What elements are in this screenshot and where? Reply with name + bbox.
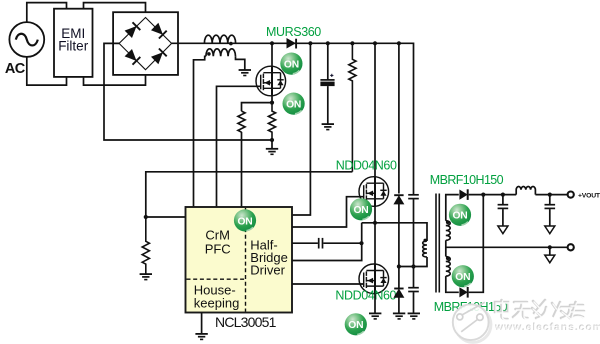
transformer T1 core (436, 194, 439, 293)
capacitor C1 bulk (320, 43, 334, 123)
capacitor C5 output (498, 195, 509, 226)
node dot rail boost drain (270, 41, 274, 45)
wire switch node to primary (362, 223, 427, 241)
bridge diode top-right (152, 24, 167, 39)
wire R2 to controller top (241, 132, 243, 207)
resistor R1 feedback upper (349, 43, 356, 172)
ON badge 6 (449, 204, 471, 226)
wire return ground stub (549, 247, 551, 255)
node dot return line (270, 138, 274, 142)
wire VS return to switch node (292, 223, 362, 261)
ON badge 1 (280, 53, 302, 75)
svg-text:MBRF10H150: MBRF10H150 (430, 173, 504, 187)
svg-text:Filter: Filter (58, 38, 89, 53)
node dot rail HV line (308, 41, 312, 45)
wire secondary center tap lead (445, 240, 447, 256)
svg-text:AC: AC (5, 61, 26, 77)
node dot switch node (373, 221, 377, 225)
capacitor C6 output (545, 195, 556, 226)
wire primary return (399, 257, 427, 267)
node dot cap midpoint (411, 264, 415, 268)
svg-text:Driver: Driver (250, 263, 285, 278)
node dot bootstrap to VS (359, 241, 363, 245)
watermark chinese text (495, 300, 584, 319)
wire AC top to EMI filter (27, 3, 67, 23)
bridge rectifier BR1 (113, 12, 178, 75)
wire half-bridge midpoint vertical (374, 206, 376, 264)
terminal +VOUT (568, 192, 574, 198)
wire ZCD left lead down to controller (194, 56, 206, 207)
svg-text:+VOUT: +VOUT (578, 192, 600, 199)
capacitor C4 half-bridge lower (408, 288, 419, 313)
transistor Q3 low-side MOSFET (359, 264, 389, 294)
resistor R2 current sense (238, 111, 245, 132)
wire bridge left vertex to return line (104, 43, 272, 140)
bridge diode bottom-left (126, 50, 141, 65)
transistor Q2 high-side MOSFET (359, 177, 389, 207)
capacitor C2 bootstrap (292, 238, 362, 249)
wire HS gate drive (292, 197, 364, 227)
phasing dot L1 (229, 42, 233, 46)
svg-text:MURS360: MURS360 (266, 25, 321, 39)
transformer T1 secondary top winding (446, 221, 450, 241)
node dot rail bulk cap (326, 41, 330, 45)
ON badge 5 (345, 313, 367, 335)
node dot output cap 1 (501, 193, 505, 197)
ground FB divider (140, 274, 152, 280)
EMI Filter box (54, 9, 93, 77)
diode D4 output top MBRF10H150 (460, 189, 468, 200)
wire Q1 gate to controller (217, 86, 261, 207)
wire output positive rail (469, 194, 517, 196)
wire controller ground stem (201, 313, 203, 334)
ground clamp diodes (393, 313, 405, 319)
ground C5 triangle (498, 226, 508, 234)
terminal output return (568, 244, 574, 250)
resistor R3 shunt (268, 103, 275, 140)
ground C6 triangle (545, 226, 555, 234)
svg-text:NDD04N60: NDD04N60 (336, 159, 397, 173)
transistor Q1 boost MOSFET (256, 66, 286, 96)
diode D3 clamp lower (394, 289, 403, 313)
AC source (9, 22, 44, 57)
node dot Q1 source (270, 101, 274, 105)
node dot output cap 2 (548, 193, 552, 197)
svg-text:www.elecfans.com: www.elecfans.com (495, 322, 600, 334)
node dot diode junction (481, 193, 485, 197)
ON badge 4 (350, 198, 372, 220)
svg-text:PFC: PFC (205, 241, 231, 256)
wire secondary bottom lead (446, 276, 459, 292)
wire LS source to ground (374, 294, 376, 313)
op-amp U1 NCL30051 controller box (186, 207, 293, 313)
wire clamp diode string (398, 43, 400, 193)
wire boost FET drain-source vertical (271, 43, 273, 102)
diode D2 clamp upper (394, 195, 403, 288)
ground boost source (266, 149, 278, 155)
wire HS drain from rail (374, 43, 376, 176)
wire EMI filter to bridge bottom (84, 70, 146, 85)
ON badge 3 controller (234, 209, 256, 231)
wire output return rail (446, 246, 568, 248)
ground bulk cap (322, 124, 334, 130)
wire EMI filter to bridge top (84, 3, 146, 18)
svg-text:keeping: keeping (194, 295, 240, 310)
wire feedback line to FB node (146, 172, 353, 217)
node dot rail HS drain (373, 41, 377, 45)
capacitor C3 half-bridge upper (408, 195, 419, 288)
transformer T1 secondary bottom winding (446, 257, 450, 277)
node dot clamp midpoint (397, 264, 401, 268)
watermark logo circle (453, 302, 491, 342)
svg-text:NCL30051: NCL30051 (215, 314, 277, 330)
bridge diode top-left (126, 22, 141, 37)
diode MURS360 (287, 39, 296, 49)
diode D5 output bottom (460, 287, 468, 298)
ground return triangle (545, 255, 555, 263)
node dot FB (144, 215, 148, 219)
wire D5 cathode up to positive rail (469, 195, 484, 293)
wire source node to CS resistor (242, 103, 273, 112)
wire ZCD right lead to ground (236, 56, 245, 69)
ground controller (195, 334, 207, 340)
resistor R4 feedback lower (142, 217, 149, 274)
transformer T1 primary winding (423, 239, 427, 257)
node dot rail FB resistor (350, 41, 354, 45)
wire bridge right to main rail and rail to snubber bend (172, 43, 414, 194)
wire LS gate drive (292, 283, 364, 285)
wire AC bottom to EMI filter (27, 57, 67, 86)
ON badge 2 (283, 93, 305, 115)
wire HV startup line (292, 43, 310, 215)
wire node to ground (271, 140, 273, 148)
svg-text:NDD04N60: NDD04N60 (335, 288, 396, 302)
inductor L2 output (516, 186, 535, 194)
ground half-bridge caps (408, 313, 420, 319)
boost inductor L1 winding (204, 35, 235, 43)
node dot rail clamp diodes (397, 41, 401, 45)
ground LS source (369, 313, 381, 319)
node dot return ground stub (548, 245, 552, 249)
ON badge 7 (452, 265, 474, 287)
ground ZCD (239, 70, 251, 76)
ZCD aux winding (206, 49, 236, 57)
wire secondary top lead (446, 195, 459, 221)
bridge diode bottom-right (152, 49, 167, 64)
